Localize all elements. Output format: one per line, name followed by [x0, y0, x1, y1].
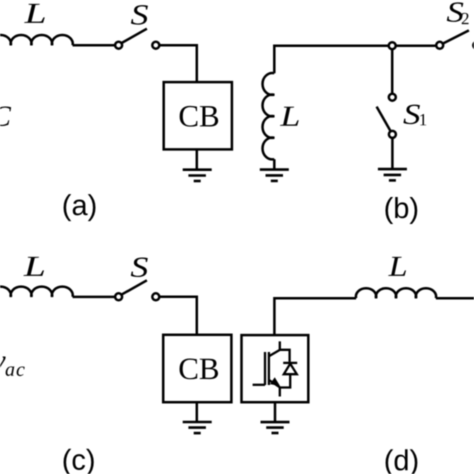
svg-text:(c): (c) [62, 445, 96, 474]
svg-text:L: L [279, 101, 300, 133]
svg-text:ac: ac [5, 359, 26, 381]
svg-text:L: L [23, 251, 46, 283]
svg-text:CB: CB [178, 98, 219, 133]
svg-text:(a): (a) [62, 190, 97, 222]
svg-text:S: S [130, 0, 149, 31]
svg-text:C: C [0, 101, 12, 133]
svg-text:S: S [130, 252, 149, 284]
svg-text:CB: CB [178, 351, 219, 386]
svg-text:1: 1 [419, 110, 428, 129]
svg-text:(d): (d) [384, 445, 419, 474]
svg-text:(b): (b) [384, 193, 419, 225]
svg-text:L: L [23, 0, 46, 30]
svg-text:L: L [387, 251, 407, 283]
svg-text:2: 2 [461, 9, 470, 28]
